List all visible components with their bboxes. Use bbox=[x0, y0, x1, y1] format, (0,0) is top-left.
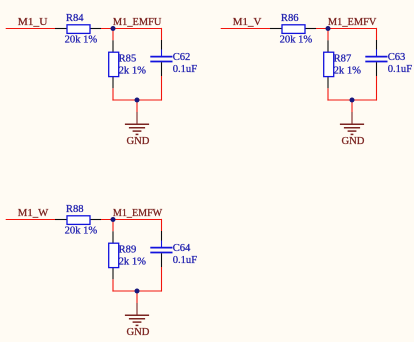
svg-text:2k 1%: 2k 1% bbox=[119, 257, 147, 268]
svg-text:R84: R84 bbox=[66, 13, 84, 24]
svg-text:M1_EMFV: M1_EMFV bbox=[328, 17, 377, 28]
svg-text:20k 1%: 20k 1% bbox=[65, 226, 98, 237]
svg-text:GND: GND bbox=[127, 327, 150, 338]
svg-text:M1_U: M1_U bbox=[18, 17, 48, 28]
svg-text:C62: C62 bbox=[173, 52, 191, 63]
svg-text:GND: GND bbox=[127, 136, 150, 147]
svg-text:R86: R86 bbox=[281, 13, 299, 24]
svg-text:2k 1%: 2k 1% bbox=[334, 66, 362, 77]
svg-text:C64: C64 bbox=[173, 243, 191, 254]
svg-text:R85: R85 bbox=[119, 54, 137, 65]
svg-text:M1_V: M1_V bbox=[233, 17, 262, 28]
svg-text:M1_W: M1_W bbox=[18, 208, 48, 219]
svg-text:M1_EMFU: M1_EMFU bbox=[113, 17, 162, 28]
svg-text:0.1uF: 0.1uF bbox=[173, 64, 198, 75]
svg-text:0.1uF: 0.1uF bbox=[173, 255, 198, 266]
svg-text:0.1uF: 0.1uF bbox=[388, 64, 413, 75]
svg-text:GND: GND bbox=[342, 136, 365, 147]
svg-text:20k 1%: 20k 1% bbox=[65, 35, 98, 46]
svg-text:2k 1%: 2k 1% bbox=[119, 66, 147, 77]
svg-text:R89: R89 bbox=[119, 245, 137, 256]
svg-text:R88: R88 bbox=[66, 204, 84, 215]
svg-text:M1_EMFW: M1_EMFW bbox=[113, 208, 162, 219]
svg-text:C63: C63 bbox=[388, 52, 406, 63]
svg-text:R87: R87 bbox=[334, 54, 352, 65]
svg-text:20k 1%: 20k 1% bbox=[280, 35, 313, 46]
